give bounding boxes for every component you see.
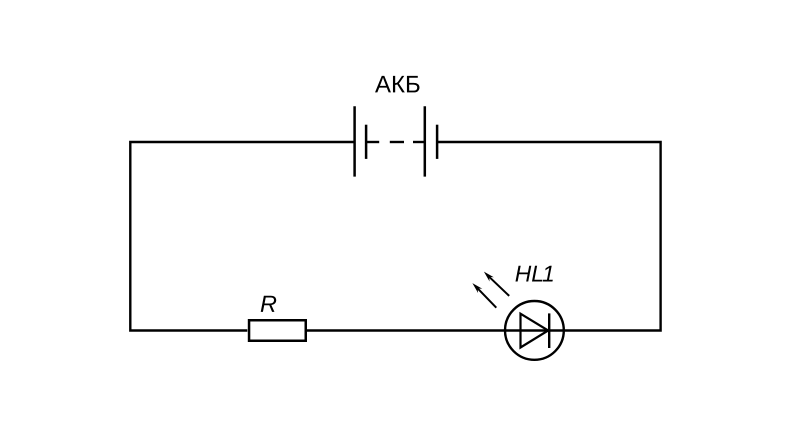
LED light arrow lower xyxy=(472,283,496,308)
LED light arrow upper xyxy=(484,272,509,296)
label R xyxy=(261,296,277,312)
label АКБ xyxy=(375,76,419,93)
wire left loop (battery to resistor: top-left, left vertical, bottom-left) xyxy=(130,142,354,331)
battery cell 2 (long plate + short plate) xyxy=(425,106,437,176)
LED HL1 symbol (circle, anode triangle, cathode bar) xyxy=(505,301,564,360)
wire dashed inter-cell link xyxy=(366,141,425,143)
label HL1 xyxy=(516,266,553,282)
wire right loop (battery to LED: top-right, right vertical, bottom-right) xyxy=(307,142,661,331)
resistor R body xyxy=(249,320,306,341)
battery cell 1 (long plate + short plate) xyxy=(355,106,367,176)
